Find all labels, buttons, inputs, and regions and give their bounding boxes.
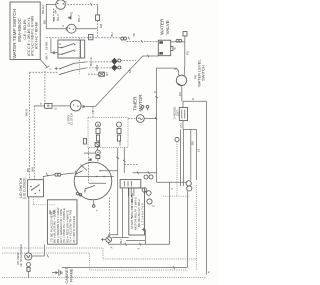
svg-text:BU: BU bbox=[110, 32, 114, 36]
wire BK from temp switch to lamp E1 bbox=[41, 4, 56, 28]
wire water valve to level switch bbox=[171, 32, 190, 72]
capacitor C1 block bbox=[120, 171, 155, 207]
drive motor M4 bbox=[55, 162, 118, 212]
svg-text:AS VIEW: AS VIEW bbox=[16, 252, 20, 265]
lid switch S6 bbox=[19, 173, 82, 199]
wire K right border run bbox=[178, 86, 211, 275]
wire dashed from lamp E1 to riser bbox=[65, 3, 98, 6]
wire BK WH risers to lid switch bbox=[25, 72, 35, 180]
wire motor risers bbox=[109, 148, 157, 237]
svg-text:SWITCH: SWITCH bbox=[201, 65, 206, 81]
svg-text:BK-9: BK-9 bbox=[25, 109, 29, 116]
svg-text:BU-7: BU-7 bbox=[77, 15, 81, 22]
water temp switch legend table S1 bbox=[10, 2, 40, 60]
wire manifold right side bbox=[163, 129, 201, 271]
solenoid assembly K1 K2 bbox=[84, 107, 129, 148]
switch S2 push-to-start bbox=[58, 38, 85, 74]
wire bus water level switch to pump bbox=[153, 68, 179, 182]
svg-text:VALVE: VALVE bbox=[165, 20, 170, 34]
svg-text:P: P bbox=[174, 68, 178, 70]
svg-text:K: K bbox=[191, 98, 195, 100]
svg-text:CKT: CKT bbox=[175, 110, 179, 116]
svg-text:PU: PU bbox=[186, 51, 190, 55]
svg-text:18: 18 bbox=[128, 69, 132, 73]
noise filter Z1 bbox=[172, 101, 187, 129]
svg-text:E: E bbox=[54, 107, 58, 109]
svg-text:(LID CLOSED): (LID CLOSED) bbox=[23, 178, 27, 199]
neutral node N with wire bus bbox=[62, 198, 187, 269]
connector diamonds J2 J3 bbox=[86, 58, 136, 71]
svg-text:18-BK: 18-BK bbox=[44, 42, 48, 50]
wiring color legend table bbox=[48, 200, 78, 244]
water valve V1 bbox=[158, 18, 177, 56]
svg-text:A: A bbox=[61, 25, 65, 27]
svg-text:BK: BK bbox=[43, 20, 47, 24]
power plug P3 with fuse F2 bbox=[16, 244, 49, 277]
wire riser with connector P1 bbox=[89, 5, 103, 40]
svg-text:GY: GY bbox=[105, 72, 109, 76]
svg-text:WH: WH bbox=[31, 167, 35, 172]
svg-text:W5A-936OC: W5A-936OC bbox=[17, 18, 22, 42]
water level switch S4 bbox=[174, 59, 206, 87]
console border dashed bbox=[2, 248, 207, 278]
svg-text:PU: PU bbox=[179, 123, 183, 127]
svg-text:PU: PU bbox=[178, 92, 182, 96]
connector EB3 bbox=[88, 64, 104, 76]
svg-text:18: 18 bbox=[197, 148, 201, 152]
svg-text:18: 18 bbox=[132, 33, 136, 37]
wire BU console feed with connector P2 bbox=[46, 32, 158, 42]
svg-text:OF SO EQUIPPED: OF SO EQUIPPED bbox=[19, 244, 23, 266]
svg-text:ATC H-C = RD-BK: ATC H-C = RD-BK bbox=[34, 21, 38, 49]
svg-text:W = WITH TRACER: W = WITH TRACER bbox=[72, 215, 76, 243]
clutch solenoid M2 with fuse F1 bbox=[34, 71, 95, 125]
svg-text:T: T bbox=[95, 210, 99, 212]
pump motor M3 bbox=[157, 181, 192, 268]
wire 18-BK to switch S2 bbox=[44, 39, 58, 60]
svg-text:BU-6: BU-6 bbox=[56, 14, 60, 21]
lamp E1 bbox=[54, 0, 68, 14]
svg-text:BK-GA: BK-GA bbox=[41, 5, 45, 14]
timer motor B1 bbox=[128, 94, 157, 123]
connector arrow J1 bbox=[68, 12, 74, 20]
wire lid switch drop bbox=[29, 197, 56, 253]
overload protector OL1 stack bbox=[81, 143, 101, 171]
wire from legend corner node Y bbox=[40, 60, 52, 71]
svg-text:EB: EB bbox=[99, 24, 103, 28]
ground cabinet frame bbox=[52, 266, 73, 283]
svg-text:A: A bbox=[110, 246, 114, 248]
svg-text:CLUTCH: CLUTCH bbox=[70, 113, 74, 125]
svg-text:BU: BU bbox=[119, 239, 123, 243]
node BU labels bbox=[52, 9, 81, 23]
switch S3 speed contacts bbox=[30, 57, 109, 76]
svg-text:Y: Y bbox=[49, 68, 53, 70]
svg-text:1 2 3 4 5 6 7 8 9: 1 2 3 4 5 6 7 8 9 bbox=[140, 203, 144, 225]
svg-text:BK: BK bbox=[83, 188, 87, 192]
svg-text:BK: BK bbox=[54, 9, 58, 13]
svg-text:BK-7: BK-7 bbox=[44, 52, 48, 59]
motor M1 bbox=[46, 24, 97, 33]
svg-text:EB3: EB3 bbox=[95, 64, 99, 70]
svg-text:WATER: WATER bbox=[160, 18, 165, 35]
wire 18 diagonal to water valve bbox=[95, 55, 158, 107]
svg-text:BK: BK bbox=[26, 168, 30, 172]
node motor terminal labels bbox=[128, 188, 134, 203]
svg-text:FRAME: FRAME bbox=[69, 268, 73, 282]
motor switch box S5 bbox=[122, 188, 146, 250]
svg-text:S: S bbox=[173, 47, 177, 49]
